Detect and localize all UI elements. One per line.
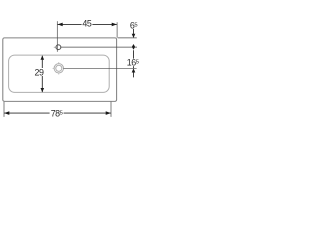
dim 29: label <box>34 68 46 78</box>
dim 45: label <box>82 18 93 28</box>
dim 16.5: vertical line down to drain line <box>133 50 135 68</box>
dim 45: right extension line <box>116 22 118 37</box>
dim 78.5: label <box>50 109 64 119</box>
dim 6.5: tap centre extension line <box>61 46 138 48</box>
svg-text:45: 45 <box>82 18 91 28</box>
dim 45: dimension line <box>58 23 117 27</box>
dim 29: dimension line with arrows <box>41 56 45 93</box>
washbasin outer outline <box>3 38 117 102</box>
drain with overflow ring <box>53 62 64 74</box>
dim 16.5: up arrow below drain line with tail <box>132 68 136 77</box>
dim 16.5: drain centre extension line <box>63 67 136 69</box>
svg-text:29: 29 <box>35 68 44 78</box>
dim 6.5: vertical line and down arrow above rear edge <box>132 29 136 38</box>
dim 78.5: left extension line <box>3 102 5 117</box>
tap hole <box>54 45 61 50</box>
svg-text:785: 785 <box>51 109 63 119</box>
dim 78.5: dimension line <box>4 111 111 115</box>
dim 6.5: label <box>129 21 139 31</box>
dim 45: left extension line through tap hole <box>56 21 58 52</box>
dim 6.5 / 16.5: shared diamond arrowheads at tap line <box>132 44 135 50</box>
dim 78.5: right extension line <box>110 102 112 117</box>
dim 16.5: label <box>126 58 139 68</box>
svg-text:65: 65 <box>130 21 138 31</box>
dim 6.5: top extension line (rear edge) <box>118 37 137 39</box>
basin bowl <box>9 55 110 92</box>
